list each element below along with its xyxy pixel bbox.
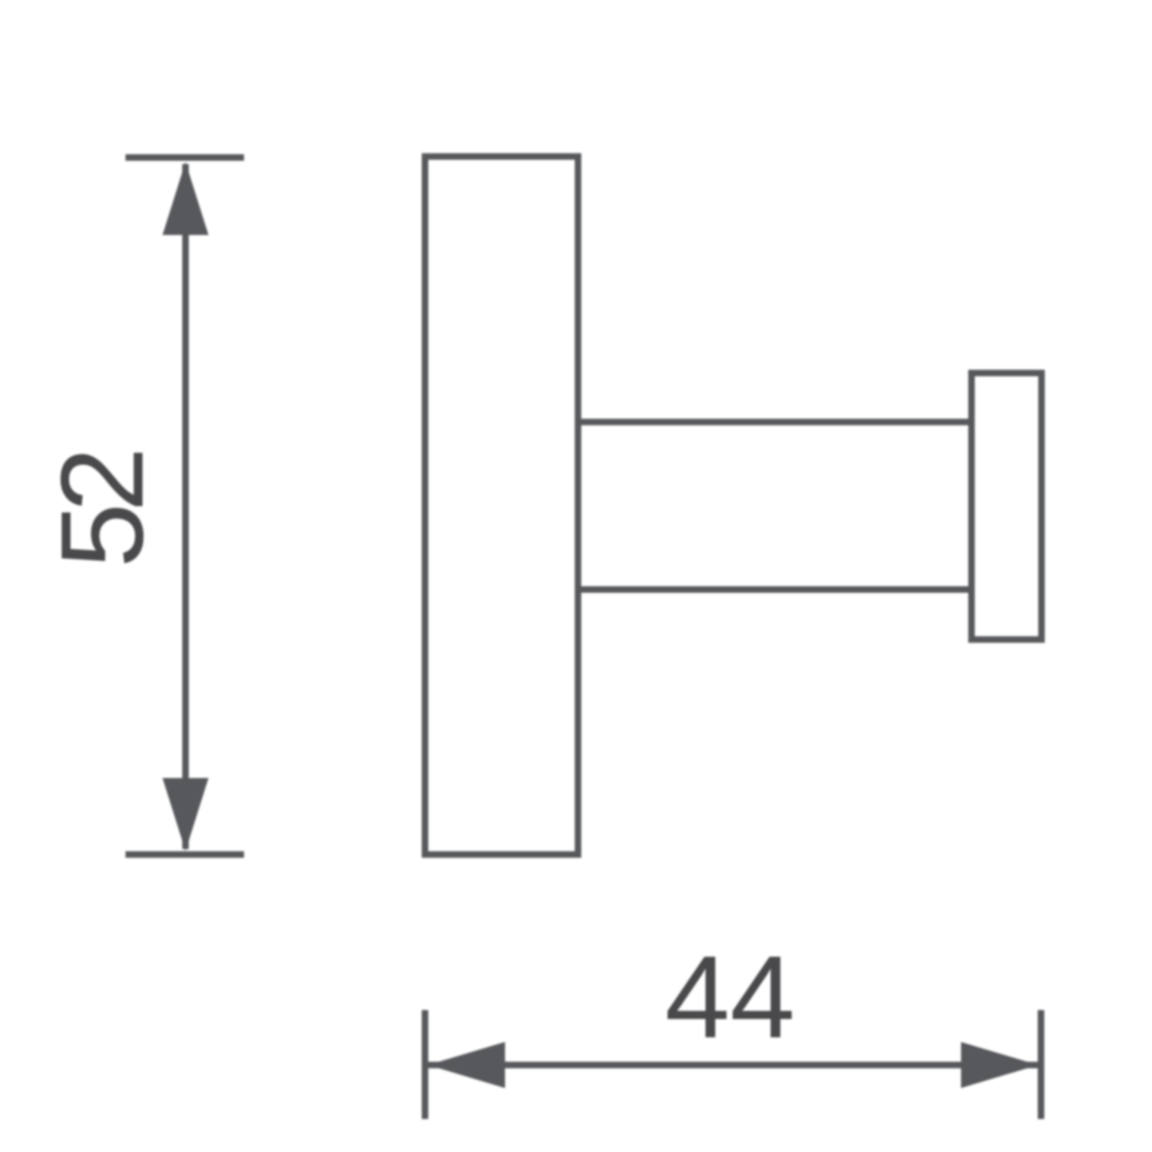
hook arm bottom line (578, 586, 972, 593)
svg-text:44: 44 (665, 931, 795, 1062)
horizontal dimension right arrowhead (961, 1042, 1038, 1088)
horizontal dimension left tick (422, 1010, 429, 1119)
hook arm top line (578, 419, 972, 426)
horizontal dimension right tick (1038, 1010, 1045, 1119)
vertical dimension line (182, 164, 189, 849)
svg-text:52: 52 (37, 452, 168, 568)
hook end cap rectangle (972, 373, 1042, 640)
vertical dimension top tick (126, 154, 245, 161)
vertical dimension up arrowhead (163, 162, 209, 235)
horizontal dimension left arrowhead (428, 1042, 505, 1088)
wall plate rectangle (425, 157, 578, 855)
horizontal dimension line (428, 1062, 1038, 1069)
vertical dimension down arrowhead (163, 778, 209, 851)
vertical dimension bottom tick (126, 851, 245, 858)
